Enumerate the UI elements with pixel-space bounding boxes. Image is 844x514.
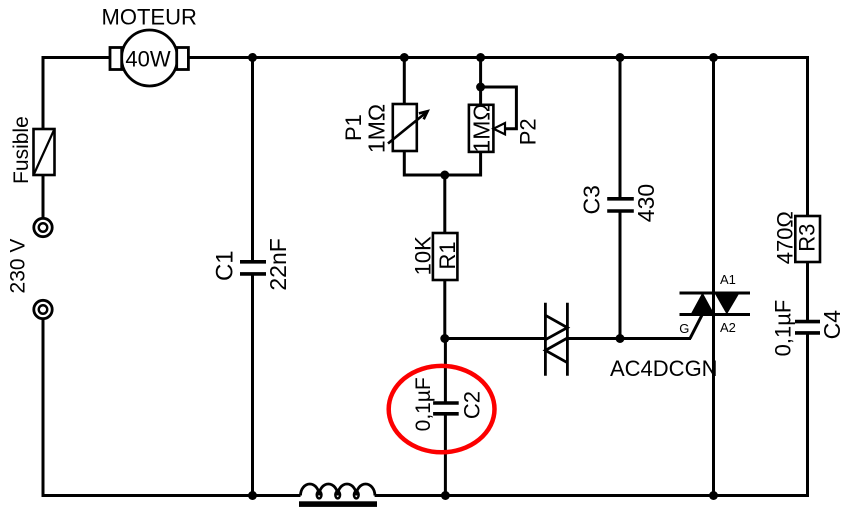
svg-text:430: 430 — [633, 184, 659, 222]
capacitor C1 — [240, 262, 266, 274]
svg-text:0,1µF: 0,1µF — [771, 300, 796, 357]
inductor L1 — [299, 484, 377, 507]
triac AC4DCGN — [680, 293, 751, 339]
wire R3 to C4 — [806, 262, 809, 322]
potentiometer P2 — [469, 87, 517, 152]
svg-text:A1: A1 — [720, 272, 736, 287]
resistor R1 — [433, 233, 458, 280]
svg-text:P1: P1 — [341, 114, 366, 141]
wire bottom from inductor to bottom-right corner up to C4 — [375, 333, 808, 496]
wire C3 upper — [619, 58, 622, 199]
wire R1 junction to diac — [445, 337, 546, 340]
node dot triac top — [709, 53, 718, 62]
red highlight ellipse around C2 — [389, 366, 495, 452]
capacitor C4 — [795, 322, 820, 333]
wire C2 upper — [444, 339, 447, 404]
svg-text:0,1µF: 0,1µF — [412, 377, 435, 431]
svg-text:C3: C3 — [579, 185, 605, 214]
svg-text:R1: R1 — [435, 241, 460, 269]
svg-text:1MΩ: 1MΩ — [364, 104, 390, 153]
node dot R1 C2 diac junction — [440, 334, 449, 343]
svg-text:MOTEUR: MOTEUR — [102, 5, 197, 30]
svg-text:C1: C1 — [212, 250, 239, 281]
wire terminal 2 down and bottom wire to inductor — [43, 320, 301, 496]
wire junction down to R1 — [443, 175, 446, 233]
node dot C3 top — [616, 53, 625, 62]
svg-text:230 V: 230 V — [7, 239, 30, 294]
wire C1 branch lower — [251, 274, 254, 496]
wire C2 lower — [444, 414, 447, 496]
svg-text:AC4DCGN: AC4DCGN — [610, 356, 718, 381]
svg-text:R3: R3 — [795, 224, 820, 252]
svg-text:P2: P2 — [516, 118, 541, 145]
capacitor C3 — [607, 199, 634, 211]
node dot C1 top — [248, 53, 257, 62]
node dot P1 P2 bottom junction — [440, 171, 449, 180]
terminal T2 — [34, 300, 52, 318]
wire top from motor to top-right corner — [188, 56, 808, 59]
wire triac vertical — [712, 58, 715, 496]
terminal T1 — [34, 218, 52, 236]
diac D1 — [545, 303, 567, 376]
potentiometer P1 — [388, 104, 428, 151]
svg-text:22nF: 22nF — [265, 238, 291, 290]
svg-text:C4: C4 — [819, 310, 844, 340]
node dot P2 top — [476, 53, 485, 62]
svg-text:10K: 10K — [411, 236, 436, 275]
svg-text:G: G — [679, 321, 689, 336]
node dot triac bottom — [709, 491, 718, 500]
svg-text:C2: C2 — [460, 391, 485, 419]
wire P1 top — [403, 58, 406, 105]
node dot C1 bottom — [248, 491, 257, 500]
wire C3 lower — [619, 211, 622, 339]
wire fuse to terminal 1 — [42, 175, 45, 217]
wire R1 bottom — [443, 280, 446, 339]
svg-text:Fusible: Fusible — [10, 116, 33, 184]
wire diac to triac gate — [567, 337, 691, 340]
node dot C2 bottom — [441, 491, 450, 500]
capacitor C2 — [433, 403, 459, 414]
node dot P2 wiper junction — [476, 83, 485, 92]
wire P1 bottom joining P2 bottom — [404, 151, 480, 175]
svg-text:40W: 40W — [125, 47, 170, 72]
motor M1 — [110, 30, 188, 86]
wire top-left corner to motor — [43, 58, 110, 130]
node dot C3 bottom junction — [616, 334, 625, 343]
svg-text:1MΩ: 1MΩ — [468, 103, 494, 152]
wire C1 branch upper — [251, 58, 254, 262]
svg-text:A2: A2 — [720, 320, 736, 335]
resistor R3 — [795, 216, 820, 262]
wire P2 top — [479, 58, 482, 105]
wire right vertical down to R3 — [806, 56, 809, 216]
fuse F1 — [34, 129, 55, 175]
node dot P1 top — [400, 53, 409, 62]
